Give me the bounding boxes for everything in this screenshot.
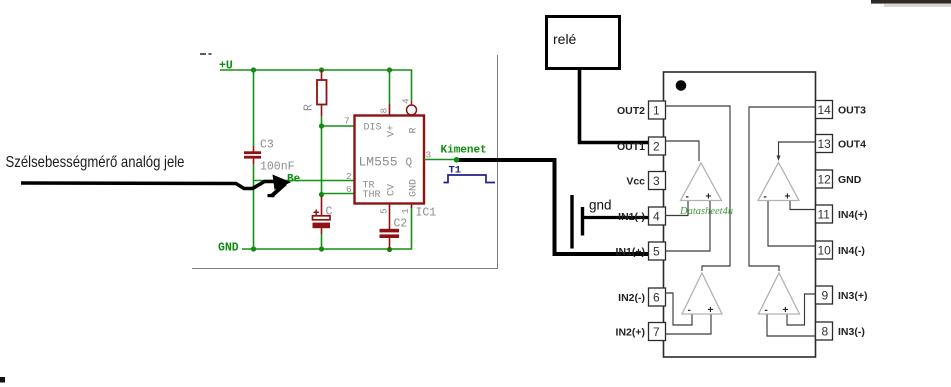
svg-text:IN4(-): IN4(-) — [838, 245, 865, 257]
wire GND rail — [242, 207, 412, 249]
wire pin8 to comparator4 inverting — [767, 315, 816, 337]
text analog signal annotation — [6, 154, 185, 171]
pin label Vcc — [626, 176, 645, 188]
svg-text:13: 13 — [818, 137, 832, 151]
pin label GND — [838, 174, 862, 186]
svg-text:7: 7 — [344, 116, 350, 127]
svg-text:-: - — [765, 305, 768, 316]
svg-text:2: 2 — [346, 171, 352, 182]
svg-text:R: R — [303, 104, 316, 111]
svg-text:-: - — [686, 192, 689, 203]
waveform pulse symbol — [444, 175, 496, 183]
wire THR pin6 — [322, 193, 355, 195]
svg-text:IN2(+): IN2(+) — [616, 327, 645, 339]
wire pin7 to comparator3 non-inverting — [665, 315, 711, 335]
op-amp comparator 3 bottom-left — [682, 273, 722, 316]
wire pin2 to comparator1 output — [665, 141, 699, 161]
wire +U supply rail — [220, 70, 412, 101]
pin number 2 — [346, 171, 352, 182]
svg-text:GND: GND — [218, 242, 239, 255]
node junction on GND rail at C — [319, 246, 324, 251]
svg-text:IN2(-): IN2(-) — [618, 292, 645, 304]
watermark Datasheet4u — [679, 206, 733, 217]
pin label IN4(-) — [838, 245, 865, 257]
pin 9 box — [816, 286, 833, 304]
value label C3 — [260, 139, 274, 152]
svg-text:Datasheet4u: Datasheet4u — [679, 206, 733, 217]
wire DIS to THR vertical — [321, 126, 323, 196]
pin 6 box — [649, 288, 666, 306]
waveform T1 label — [449, 165, 462, 177]
net label GND — [218, 242, 239, 255]
svg-text:OUT2: OUT2 — [617, 105, 645, 117]
net label Kimenet — [441, 145, 487, 157]
svg-text:5: 5 — [653, 245, 660, 259]
svg-text:4: 4 — [653, 210, 660, 224]
value label 100nF — [260, 161, 295, 174]
svg-text:+: + — [706, 192, 712, 203]
node junction on GND rail at C3 — [251, 246, 256, 251]
pin 1 GND stub — [411, 204, 413, 209]
svg-text:5: 5 — [379, 208, 390, 214]
svg-text:4: 4 — [401, 98, 412, 104]
svg-text:14: 14 — [818, 103, 832, 117]
svg-text:8: 8 — [379, 108, 390, 114]
node junction THR — [319, 192, 324, 197]
value label C2 — [394, 218, 408, 231]
svg-text:10: 10 — [818, 244, 832, 258]
svg-text:6: 6 — [346, 184, 352, 195]
svg-text:6: 6 — [653, 291, 660, 305]
svg-text:1: 1 — [400, 208, 411, 214]
pin number 1 — [400, 208, 411, 214]
svg-text:CV: CV — [387, 184, 398, 196]
svg-text:OUT1: OUT1 — [617, 141, 645, 153]
wire Kimenet output to pin 5 — [455, 160, 649, 254]
svg-text:Szélsebességmérő analóg jele: Szélsebességmérő analóg jele — [6, 154, 185, 171]
wire pin13 to comparator2 output — [777, 142, 816, 161]
svg-text:IN1(-): IN1(-) — [618, 211, 645, 223]
pin 8 V+ stub — [389, 70, 391, 116]
svg-text:gnd: gnd — [589, 198, 612, 213]
pin 1 box — [649, 101, 666, 119]
node junction R to DIS — [319, 123, 324, 128]
svg-text:GND: GND — [838, 174, 862, 186]
pin 12 box — [816, 170, 833, 188]
pin label IN1(-) — [618, 211, 645, 223]
svg-text:OUT3: OUT3 — [838, 105, 866, 117]
svg-text:IN3(+): IN3(+) — [838, 290, 867, 302]
pin 4 reset stub with bubble — [407, 101, 417, 116]
svg-text:C2: C2 — [394, 218, 408, 231]
svg-text:-: - — [764, 192, 767, 203]
wire pin11 to comparator2 non-inverting — [790, 201, 816, 210]
svg-text:IN3(-): IN3(-) — [838, 326, 865, 338]
svg-text:2: 2 — [653, 140, 660, 154]
pin label IN2(+) — [616, 327, 645, 339]
pin 13 box — [816, 135, 833, 153]
resistor R — [317, 70, 327, 126]
pin number 5 — [379, 208, 390, 214]
pin number 8 — [379, 108, 390, 114]
svg-text:IN4(+): IN4(+) — [838, 209, 867, 221]
capacitor C2 — [380, 204, 400, 250]
capacitor C polarized — [313, 196, 331, 249]
pin number 4 — [401, 98, 412, 104]
svg-text:C: C — [326, 206, 333, 219]
svg-text:11: 11 — [818, 208, 831, 222]
svg-text:12: 12 — [818, 173, 832, 187]
pin 3 box — [649, 172, 666, 190]
svg-text:9: 9 — [822, 289, 829, 303]
svg-text:7: 7 — [653, 325, 660, 339]
svg-text:Be: Be — [287, 174, 301, 186]
svg-text:-: - — [688, 305, 691, 316]
svg-text:Vcc: Vcc — [626, 176, 645, 188]
artifact top-right bar — [871, 0, 951, 7]
svg-text:relé: relé — [553, 31, 577, 47]
op-amp comparator 2 top-right — [758, 163, 799, 203]
node junction on +U rail at C3 — [251, 67, 256, 72]
svg-text:DIS: DIS — [364, 123, 382, 134]
wire Q output pin3 — [424, 159, 457, 161]
pin 8 box — [816, 322, 833, 340]
svg-text:1: 1 — [653, 104, 660, 118]
pin label IN1(+) — [616, 246, 645, 258]
svg-text:R: R — [409, 127, 420, 133]
pin 2 box — [649, 137, 666, 155]
svg-text:Q: Q — [406, 157, 413, 169]
pin 14 box — [816, 101, 833, 119]
pin 5 box — [649, 242, 666, 260]
node junction on +U rail at pin 8 — [387, 67, 392, 72]
svg-text:IN1(+): IN1(+) — [616, 246, 645, 258]
artifact bottom-left mark — [0, 377, 5, 383]
op-amp comparator 1 top-left — [681, 163, 722, 203]
svg-text:+: + — [785, 192, 791, 203]
pin label OUT3 — [838, 105, 866, 117]
svg-text:IC1: IC1 — [416, 207, 437, 220]
net label Be — [287, 174, 301, 186]
capacitor C3 — [244, 70, 261, 249]
svg-text:+: + — [783, 305, 789, 316]
svg-text:OUT4: OUT4 — [838, 139, 866, 151]
op-amp comparator IC LM339 body — [664, 72, 816, 357]
part label IC1 — [416, 207, 437, 220]
op-amp comparator 4 bottom-right — [759, 273, 800, 316]
pin 7 box — [649, 323, 666, 341]
pin number 6 — [346, 184, 352, 195]
wire pin5 to comparator1 non-inverting — [665, 201, 710, 251]
value label R — [303, 104, 316, 111]
pin 10 box — [816, 241, 833, 259]
pin label OUT1 — [617, 141, 645, 153]
op-amp timer IC1 LM555 body — [355, 116, 425, 204]
svg-text:+: + — [708, 305, 714, 316]
pin number 3 — [426, 150, 432, 161]
svg-text:THR: THR — [363, 190, 381, 201]
value label C — [326, 206, 333, 219]
text gnd — [589, 198, 612, 213]
pin number 7 — [344, 116, 350, 127]
node junction on GND rail at C2 — [387, 247, 392, 252]
pin 11 box — [816, 205, 833, 223]
net label +U — [219, 60, 233, 73]
pin label OUT2 — [617, 105, 645, 117]
svg-text:8: 8 — [822, 325, 829, 339]
wire TR pin2 from Be — [254, 180, 355, 182]
svg-text:100nF: 100nF — [260, 161, 295, 174]
pin 4 box — [649, 207, 666, 225]
svg-text:LM555: LM555 — [359, 155, 398, 170]
pin label IN2(-) — [618, 292, 645, 304]
svg-text:3: 3 — [653, 174, 660, 188]
wire pin10 to comparator2 inverting — [768, 201, 816, 246]
wire pin9 to comparator4 non-inverting — [787, 294, 816, 325]
relay box rele — [547, 17, 620, 69]
node Kimenet junction — [454, 157, 460, 163]
wire pin6 to comparator3 inverting — [665, 293, 692, 325]
wire pin4 to comparator1 inverting — [665, 201, 688, 216]
svg-text:Kimenet: Kimenet — [441, 145, 487, 157]
svg-text:+U: +U — [219, 60, 233, 73]
wire DIS pin7 — [322, 125, 355, 127]
wire pin14 to comparator4 output — [749, 107, 816, 271]
pin label IN4(+) — [838, 209, 867, 221]
svg-text:GND: GND — [409, 179, 420, 197]
wire pin1 to comparator3 output — [665, 106, 730, 271]
node junction on +U rail at R — [319, 67, 324, 72]
pin label OUT4 — [838, 139, 866, 151]
svg-text:C3: C3 — [260, 139, 274, 152]
ground symbol gnd — [572, 195, 648, 249]
wire hand-drawn signal arrow — [21, 175, 291, 197]
svg-text:V+: V+ — [387, 125, 398, 137]
pin label IN3(+) — [838, 290, 867, 302]
pin label IN3(-) — [838, 326, 865, 338]
wire relay to pin 2 OUT1 — [580, 69, 650, 143]
